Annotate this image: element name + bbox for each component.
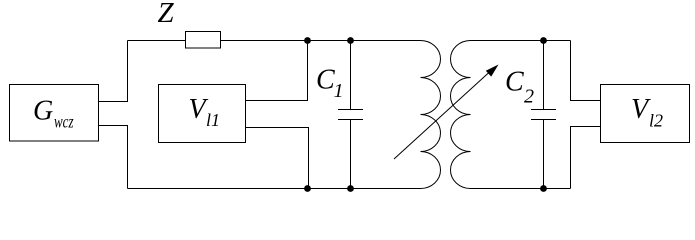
svg-text:C: C [316, 65, 335, 96]
svg-text:wcz: wcz [54, 112, 74, 132]
svg-text:V: V [631, 94, 651, 125]
svg-text:l1: l1 [206, 110, 220, 130]
svg-text:1: 1 [334, 80, 344, 102]
svg-text:2: 2 [524, 86, 534, 108]
svg-text:G: G [33, 96, 53, 127]
svg-text:l2: l2 [649, 111, 663, 131]
svg-text:C: C [505, 67, 524, 98]
svg-text:Z: Z [158, 0, 175, 29]
